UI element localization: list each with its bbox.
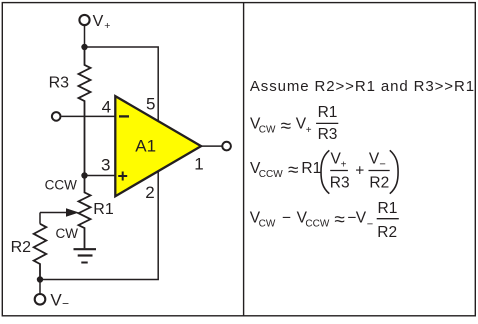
svg-text:+: + xyxy=(104,20,110,32)
potentiometer R1 xyxy=(79,176,91,249)
terminal V- xyxy=(35,294,46,305)
plus input symbol xyxy=(118,172,127,181)
svg-text:−: − xyxy=(62,297,69,311)
svg-text:CCW: CCW xyxy=(45,178,77,193)
terminal input (inverting) xyxy=(52,112,61,121)
svg-text:R1: R1 xyxy=(378,200,398,217)
svg-text:V: V xyxy=(93,13,104,30)
svg-text:R3: R3 xyxy=(49,75,70,92)
formula Vcw minus Vccw xyxy=(250,200,399,241)
wire node C to V- xyxy=(39,280,41,295)
wire node B to pin 3 xyxy=(85,175,116,177)
svg-text:R1: R1 xyxy=(93,201,114,218)
svg-text:CW: CW xyxy=(259,219,276,230)
svg-text:V: V xyxy=(356,210,367,227)
node C junction dot (R2 / rail / V-) xyxy=(37,276,43,282)
svg-text:+: + xyxy=(341,160,347,171)
wire V+ to node A xyxy=(84,25,86,47)
minus input symbol xyxy=(119,115,129,117)
op-amp A1 xyxy=(115,96,201,196)
svg-text:R2: R2 xyxy=(369,174,389,191)
panel divider xyxy=(243,3,245,316)
label V+ xyxy=(93,13,111,32)
svg-text:R1: R1 xyxy=(301,160,321,177)
resistor R2 xyxy=(34,224,47,280)
svg-text:A1: A1 xyxy=(135,137,156,156)
svg-text:≈: ≈ xyxy=(334,210,344,231)
svg-text:−: − xyxy=(282,210,291,227)
svg-text:V: V xyxy=(369,150,380,167)
svg-text:−: − xyxy=(367,219,373,231)
svg-text:2: 2 xyxy=(145,183,154,202)
resistor R3 xyxy=(79,47,91,176)
svg-text:+: + xyxy=(355,162,364,179)
label V- xyxy=(50,290,69,310)
svg-text:CCW: CCW xyxy=(305,219,329,230)
svg-text:CCW: CCW xyxy=(259,169,283,180)
ground xyxy=(74,248,97,262)
svg-text:−: − xyxy=(379,159,385,171)
svg-text:1: 1 xyxy=(194,155,203,174)
svg-text:R1: R1 xyxy=(318,104,338,121)
svg-text:CW: CW xyxy=(259,125,276,136)
svg-text:R2: R2 xyxy=(11,239,32,256)
svg-text:CW: CW xyxy=(56,226,79,241)
svg-text:R3: R3 xyxy=(318,126,338,143)
terminal output xyxy=(222,142,231,151)
svg-text:5: 5 xyxy=(146,94,155,113)
svg-text:4: 4 xyxy=(102,98,111,117)
output wire pin 1 xyxy=(201,145,221,147)
formula Vccw xyxy=(250,150,398,193)
wiper arrow of R1 xyxy=(40,208,79,216)
svg-text:Assume R2>>R1 and R3>>R1: Assume R2>>R1 and R3>>R1 xyxy=(250,78,475,95)
formula Vcw xyxy=(250,104,338,143)
node A junction dot xyxy=(81,44,87,50)
wire node A to pin 5 xyxy=(85,47,159,121)
svg-text:V: V xyxy=(50,290,62,309)
svg-text:3: 3 xyxy=(101,156,110,175)
svg-text:+: + xyxy=(306,125,312,136)
svg-text:R2: R2 xyxy=(377,224,397,241)
wire to pin 4 xyxy=(61,115,115,117)
pin 2 wire to bottom rail xyxy=(40,171,158,279)
wiper wire down to R2 xyxy=(39,213,41,224)
node B junction dot (R3 / R1 / pin 3) xyxy=(81,172,87,178)
terminal V+ xyxy=(79,15,89,25)
svg-text:≈: ≈ xyxy=(288,160,298,181)
svg-text:≈: ≈ xyxy=(281,116,291,137)
svg-text:R3: R3 xyxy=(330,174,350,191)
